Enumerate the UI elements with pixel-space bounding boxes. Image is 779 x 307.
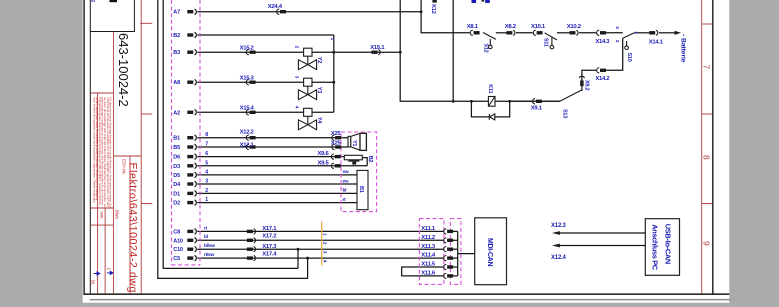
connector X15.4: [246, 110, 255, 115]
connector X9.1: [533, 99, 542, 104]
wire X11 stub 5: [453, 266, 458, 268]
connector X8.1: [470, 30, 479, 35]
wire X12.3 from USB box: [558, 232, 645, 234]
connector X11.4: [444, 256, 453, 261]
MDI-CAN box: [475, 218, 507, 285]
svg-text:D4: D4: [173, 182, 181, 188]
junction K12 contact / K11 row: [452, 100, 455, 103]
wire X12.4 from USB box: [558, 245, 645, 247]
wire C10 row: [197, 248, 443, 250]
svg-text:X17.2: X17.2: [262, 234, 277, 240]
junction K11 right: [508, 100, 511, 103]
svg-text:sw: sw: [343, 170, 349, 175]
sheet shadow line bottom: [90, 299, 731, 301]
wire B2 row to valve bus: [197, 34, 333, 36]
switch S11: [545, 33, 557, 49]
wire D5 row: [197, 174, 357, 176]
gray margin left: [0, 0, 83, 307]
title block top cell right edge: [133, 0, 135, 32]
svg-text:7: 7: [205, 142, 208, 148]
red row line top of print block: [90, 92, 113, 94]
red column line 3: [112, 32, 114, 294]
ECU pin D1: [173, 191, 196, 198]
ECU pin D5: [173, 172, 196, 179]
svg-text:3: 3: [205, 179, 208, 185]
svg-text:S12: S12: [482, 43, 488, 52]
wire D4 row: [197, 183, 357, 185]
svg-text:X12.4: X12.4: [551, 255, 567, 261]
svg-text:X15.3: X15.3: [240, 76, 255, 82]
ECU pin B2: [173, 32, 196, 39]
svg-text:A10: A10: [173, 238, 183, 244]
svg-text:MDI-CAN: MDI-CAN: [486, 238, 493, 266]
svg-text:A8: A8: [173, 80, 180, 86]
svg-text:8: 8: [702, 155, 712, 160]
svg-text:X11.4: X11.4: [421, 253, 436, 259]
wire K12 contact vertical: [452, 0, 454, 101]
svg-text:EDV-Nr.: EDV-Nr.: [122, 159, 127, 175]
svg-text:D5: D5: [173, 173, 180, 179]
svg-text:X14.1: X14.1: [649, 39, 664, 45]
wire B3 row through Y2: [197, 51, 400, 53]
sheet border right: [712, 0, 713, 295]
connector X10.1: [533, 30, 542, 35]
connector X9.5: [331, 163, 340, 168]
svg-text:2: 2: [205, 188, 208, 194]
junction Y2 out: [332, 51, 335, 54]
wire X11.5 jumper: [402, 267, 444, 276]
wire X14.1 to battery arrow: [659, 32, 675, 34]
svg-text:Blatt: Blatt: [114, 210, 119, 220]
magenta ECU connector dashed boundary: [172, 0, 461, 284]
svg-text:X11.3: X11.3: [421, 244, 436, 250]
red legal fine print block: [92, 97, 112, 209]
svg-text:B1: B1: [173, 136, 180, 142]
svg-text:Anschluss PC: Anschluss PC: [650, 224, 659, 271]
svg-text:A7: A7: [173, 10, 180, 16]
connector X24.4: [277, 9, 286, 14]
wire A10 row: [197, 239, 443, 241]
svg-text:X11.2: X11.2: [421, 235, 436, 241]
wire K12 vertical: [421, 0, 470, 33]
svg-text:bl: bl: [343, 188, 347, 194]
svg-text:rt/sw: rt/sw: [204, 252, 214, 258]
svg-text:X12.2: X12.2: [240, 130, 255, 136]
connector X25b: [332, 144, 341, 149]
svg-text:X8.1: X8.1: [467, 24, 479, 30]
zone tick right y24: [702, 23, 712, 25]
wire B5 row: [197, 146, 348, 148]
ECU pin D2: [173, 200, 196, 207]
horn Y1: [348, 133, 366, 150]
svg-text:B2: B2: [173, 33, 180, 39]
red row line EDV cell: [113, 155, 141, 157]
connector X12.2: [246, 135, 255, 140]
top edge fragment black: [482, 0, 485, 2]
wire A8 row through Y3: [197, 81, 333, 83]
connector X17.1: [247, 229, 256, 234]
connector X11.3: [444, 247, 453, 252]
connector X12.1: [246, 144, 255, 149]
svg-text:ihres Inhaltes nicht gestattet: ihres Inhaltes nicht gestattet, soweit n…: [92, 97, 96, 203]
connector X11.5: [444, 264, 453, 269]
arrow X12.4: [552, 244, 560, 248]
svg-text:3: 3: [294, 76, 300, 79]
wire diode loop: [471, 101, 509, 117]
svg-text:B3: B3: [173, 50, 180, 56]
svg-text:C5: C5: [173, 256, 180, 262]
buzzer B2: [344, 155, 362, 164]
svg-text:X12.1: X12.1: [240, 142, 255, 148]
svg-text:4: 4: [205, 169, 208, 175]
svg-text:X15.2: X15.2: [240, 46, 255, 52]
svg-text:A2: A2: [173, 110, 180, 116]
wire X15.1 vertical from top: [399, 0, 401, 52]
red column line 2: [104, 208, 106, 293]
wire X11 stub 3: [453, 248, 458, 250]
red column line 1: [97, 93, 99, 293]
svg-text:D2: D2: [173, 201, 180, 207]
svg-text:bl/sw: bl/sw: [204, 243, 215, 249]
USB-to-CAN box: [645, 219, 679, 276]
wire D2 row: [197, 202, 357, 204]
wire S11 to X10.2: [557, 32, 570, 34]
svg-text:5: 5: [205, 160, 208, 166]
diode V1: [489, 114, 495, 120]
connector X14.2: [597, 68, 606, 73]
junction Y3 out: [332, 81, 335, 84]
wire K11 right to X9.1: [510, 100, 535, 102]
svg-text:X14.2: X14.2: [595, 76, 610, 82]
junction K11 left: [470, 100, 473, 103]
wire B2 right terminal: [362, 158, 367, 166]
sensor B1: [357, 170, 368, 209]
connector X10.2: [570, 30, 579, 35]
ECU pin A7: [173, 9, 196, 16]
svg-text:6: 6: [205, 151, 208, 157]
svg-text:X25: X25: [331, 141, 342, 147]
zone tick left y114: [141, 113, 152, 115]
connector X11.1: [444, 229, 453, 234]
wire C8 row: [197, 230, 443, 232]
wire X11 bus vertical: [457, 231, 459, 276]
valve Y2: [294, 46, 323, 70]
connector X15.3: [246, 80, 255, 85]
wire X10.2 to X14.3: [579, 32, 596, 34]
zone tick right y114: [702, 113, 712, 115]
relay coil K11: [488, 97, 495, 107]
zone column line right: [701, 0, 703, 293]
svg-text:B5: B5: [173, 145, 180, 151]
svg-text:B1: B1: [358, 186, 364, 193]
svg-text:D1: D1: [173, 191, 180, 197]
junction X17.4 branch: [306, 257, 309, 260]
ECU boundary dashed left edge: [171, 0, 173, 265]
svg-text:X10.1: X10.1: [531, 24, 546, 30]
wire D3 row to B2 stem: [197, 165, 367, 167]
wire S12 to X8.2: [496, 32, 507, 34]
gray margin bottom: [83, 303, 730, 307]
connector X9.6: [331, 154, 340, 159]
svg-text:g: g: [90, 0, 96, 2]
svg-text:1: 1: [106, 268, 111, 271]
wire C5 row: [197, 257, 443, 259]
battery arrow: [675, 31, 682, 35]
connector X17.2: [247, 238, 256, 243]
svg-text:C10: C10: [173, 247, 183, 253]
junction X15.1 node: [399, 51, 402, 54]
switch S13: [560, 90, 582, 101]
svg-text:X24.4: X24.4: [268, 4, 283, 10]
connector X9.2: [579, 76, 584, 86]
svg-text:X11.1: X11.1: [421, 226, 436, 232]
magenta X11 connector dashed box: [450, 219, 461, 285]
ECU pin B5: [173, 144, 196, 151]
connector X17.4: [247, 256, 256, 261]
svg-text:Y3: Y3: [316, 87, 322, 93]
connector X8.2: [506, 30, 515, 35]
svg-text:X11.5: X11.5: [421, 262, 436, 268]
svg-text:von: von: [99, 212, 104, 220]
svg-text:X11.6: X11.6: [421, 271, 436, 277]
svg-text:X17.3: X17.3: [262, 244, 277, 250]
svg-text:X15.4: X15.4: [240, 106, 255, 112]
svg-text:K11: K11: [487, 84, 493, 93]
svg-text:- Batterie: - Batterie: [679, 34, 686, 63]
svg-text:4: 4: [294, 106, 300, 109]
svg-text:7: 7: [702, 65, 712, 70]
wire CAN bus up-left 1: [158, 0, 308, 278]
red row line blatt bottom: [90, 224, 113, 226]
ECU pin A2: [173, 110, 196, 117]
ECU pin A10: [173, 238, 196, 245]
wire X11 stub 1: [453, 230, 458, 232]
sheet border bottom: [83, 293, 729, 295]
svg-text:X10.2: X10.2: [567, 24, 582, 30]
svg-text:Y1: Y1: [351, 140, 357, 146]
wire A2 row through Y4: [197, 111, 333, 113]
svg-text:Y2: Y2: [316, 57, 322, 63]
connector X17.3: [247, 247, 256, 252]
wire X15.1 node down to K11 row: [400, 52, 560, 101]
connector X15.2: [246, 50, 255, 55]
wire D6 row to B2: [197, 156, 344, 158]
svg-text:X9.6: X9.6: [318, 151, 330, 157]
ECU boundary dashed right edge: [199, 0, 201, 265]
wire X9.1 to S13: [542, 100, 560, 102]
svg-text:1: 1: [205, 197, 208, 203]
svg-text:X9.1: X9.1: [531, 106, 543, 112]
magenta X11 label dashed box: [419, 219, 444, 285]
switch S12: [483, 33, 496, 49]
top edge fragment blue a: [472, 0, 477, 3]
svg-text:8: 8: [205, 132, 208, 138]
svg-text:2: 2: [294, 46, 300, 49]
ECU pin D3: [173, 163, 196, 170]
ECU boundary dashed bottom edge: [172, 264, 201, 266]
wire X11 stub 4: [453, 257, 458, 259]
ECU pin C5: [173, 255, 196, 262]
cut black text remnant top cell: [110, 0, 118, 2]
svg-text:643-10024-2: 643-10024-2: [116, 33, 131, 107]
ECU pin A8: [173, 80, 196, 87]
ECU pin C10: [173, 247, 196, 254]
svg-text:X12.3: X12.3: [551, 223, 567, 229]
connector X11.6: [444, 273, 453, 278]
svg-text:X17.1: X17.1: [262, 226, 277, 232]
valve Y4: [294, 106, 323, 130]
relay K12 box remnant: [432, 0, 436, 3]
title block top cell divider: [90, 31, 135, 33]
svg-text:X17.4: X17.4: [262, 252, 277, 258]
wire X14.2 to X9.2 corner: [582, 70, 596, 80]
svg-text:X25: X25: [331, 131, 342, 137]
svg-text:X8.2: X8.2: [505, 24, 517, 30]
svg-text:X9.2: X9.2: [583, 80, 589, 91]
svg-text:X9.5: X9.5: [318, 160, 330, 166]
svg-text:S11: S11: [543, 38, 549, 47]
wire branch X17.3 down: [297, 249, 299, 268]
top edge fragment blue b: [485, 0, 490, 3]
zone tick right y203: [702, 203, 712, 205]
wire D1 row: [197, 192, 357, 194]
wire S10 common to X14.1: [635, 32, 650, 34]
valve Y3: [294, 76, 323, 100]
wire X14.3 to S10 contact: [606, 32, 623, 34]
red column line 4: [129, 156, 131, 293]
wire A7 row: [197, 11, 421, 13]
svg-text:X15.1: X15.1: [370, 45, 385, 51]
wire X9.2 to S13: [581, 87, 583, 91]
connector X14.1: [649, 30, 658, 35]
connector X25a: [332, 135, 341, 140]
ECU pin B3: [173, 50, 196, 57]
title block frame line: [90, 0, 91, 293]
orange cable marker: [321, 221, 323, 265]
red row line blatt top: [90, 207, 113, 209]
svg-text:USB-to-CAN: USB-to-CAN: [663, 224, 672, 264]
zone tick left y203: [141, 203, 152, 205]
svg-text:Bl.: Bl.: [91, 280, 96, 285]
ECU pin D4: [173, 181, 196, 188]
wire X11 stub 2: [453, 239, 458, 241]
svg-text:D6: D6: [173, 155, 180, 161]
magenta B-group dashed box: [341, 132, 377, 212]
svg-text:S10: S10: [626, 53, 632, 62]
svg-text:B2: B2: [367, 156, 373, 163]
svg-text:C8: C8: [173, 229, 180, 235]
svg-text:S13: S13: [561, 109, 567, 118]
svg-text:Elektro\643\10024-2.dwg: Elektro\643\10024-2.dwg: [127, 163, 139, 293]
zone column line left: [140, 0, 142, 293]
connector X11.2: [444, 238, 453, 243]
wire bus to MDI-CAN: [458, 253, 475, 255]
wire valve common vertical: [333, 35, 335, 112]
wire X11 stub 6: [453, 275, 458, 277]
junction A7/K12: [420, 10, 423, 13]
ECU pin C8: [173, 229, 196, 236]
svg-text:X14.3: X14.3: [595, 39, 610, 45]
sheet border left: [83, 0, 84, 295]
switch S10: [623, 33, 635, 50]
svg-text:D3: D3: [173, 164, 180, 170]
wire X8.2 to X10.1: [516, 32, 533, 34]
connector X14.3: [597, 30, 606, 35]
svg-text:9: 9: [702, 241, 712, 246]
wire S10 position2 vertical to X14.2: [606, 38, 623, 70]
zone tick left y23: [140, 22, 152, 24]
blue arrow right cell: [107, 271, 113, 274]
junction X17.3 branch: [297, 248, 300, 251]
connector X15.1: [372, 50, 381, 55]
wire CAN bus up-left 2: [163, 0, 298, 268]
wire branch X17.4 down: [307, 258, 309, 278]
arrow X12.3: [552, 231, 560, 235]
svg-text:bl: bl: [204, 234, 208, 240]
ECU pin B1: [173, 135, 196, 142]
svg-text:ws: ws: [342, 179, 349, 184]
svg-text:K12: K12: [430, 4, 436, 14]
wire B1 row: [197, 137, 348, 139]
ECU pin D6: [173, 154, 196, 161]
gray margin right: [729, 0, 779, 307]
blue arrow left cell: [94, 272, 100, 275]
